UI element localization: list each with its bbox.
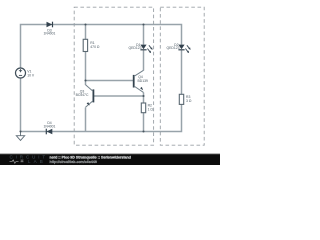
wire D1 anode: [143, 25, 145, 45]
node junction ground: [19, 130, 21, 132]
LED D2: [178, 45, 190, 54]
svg-text:1N4001: 1N4001: [44, 124, 56, 128]
wire Q4 base: [86, 80, 134, 82]
svg-text:470 Ω: 470 Ω: [90, 45, 100, 49]
footer bar: [0, 154, 220, 165]
node junction R1/Q4 base: [84, 79, 86, 81]
svg-text:3 Ω: 3 Ω: [186, 99, 192, 103]
LED D1: [140, 45, 152, 54]
node junction top rail D1: [142, 23, 144, 25]
wire V1 bottom to ground rail: [20, 78, 22, 132]
wire D2 cathode to R3: [181, 50, 183, 94]
svg-text:1N4001: 1N4001: [44, 32, 56, 36]
resistor R3: [179, 94, 183, 104]
transistor Q3: [86, 85, 94, 108]
resistor R2: [141, 103, 145, 113]
transistor Q4: [134, 70, 144, 92]
svg-text:10 V: 10 V: [27, 73, 35, 77]
wire top rail: [21, 25, 182, 69]
node junction top rail R1: [84, 23, 86, 25]
wire Q3 base to Q4 emitter node: [94, 95, 144, 97]
node junction bottom rail R2: [142, 130, 144, 132]
svg-text:LAB: LAB: [28, 159, 46, 164]
wire D1 cathode to Q4 collector: [143, 50, 145, 70]
resistor R1: [83, 39, 87, 51]
wire R1 branch: [85, 25, 87, 40]
svg-text:BD139: BD139: [138, 79, 148, 83]
ground: [16, 132, 24, 141]
svg-text:BC547C: BC547C: [76, 93, 89, 97]
svg-text:QED123: QED123: [166, 46, 179, 50]
wire Q4 emitter to R2: [143, 93, 145, 104]
svg-text:http://circuitlab.com/c6s448: http://circuitlab.com/c6s448: [50, 160, 97, 164]
svg-text:QED123: QED123: [128, 46, 141, 50]
dashed box (series resistor block): [160, 7, 204, 145]
wire Q3 emitter to rail: [85, 108, 87, 132]
wire bottom rail: [21, 104, 182, 131]
diode D3: [47, 22, 53, 28]
wire R2 to rail: [143, 113, 145, 132]
dashed box (current source block): [74, 7, 153, 145]
diode D4: [46, 129, 52, 135]
voltage source V1: [16, 68, 26, 78]
wire R1 to Q3 collector: [85, 52, 87, 86]
svg-text:1 Ω: 1 Ω: [148, 108, 154, 112]
node junction Q3 base / Q4 emitter: [142, 95, 144, 97]
